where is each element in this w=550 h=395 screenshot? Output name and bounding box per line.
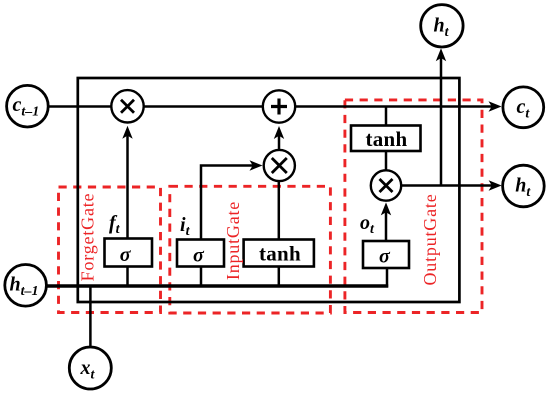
svg-text:ForgetGate: ForgetGate: [78, 193, 98, 282]
svg-text:tanh: tanh: [259, 242, 301, 266]
svg-text:OutputGate: OutputGate: [420, 194, 440, 286]
svg-text:InputGate: InputGate: [223, 201, 243, 280]
svg-text:σ: σ: [120, 244, 132, 266]
svg-text:σ: σ: [379, 245, 391, 267]
svg-text:tanh: tanh: [365, 127, 407, 151]
svg-text:σ: σ: [193, 244, 205, 266]
